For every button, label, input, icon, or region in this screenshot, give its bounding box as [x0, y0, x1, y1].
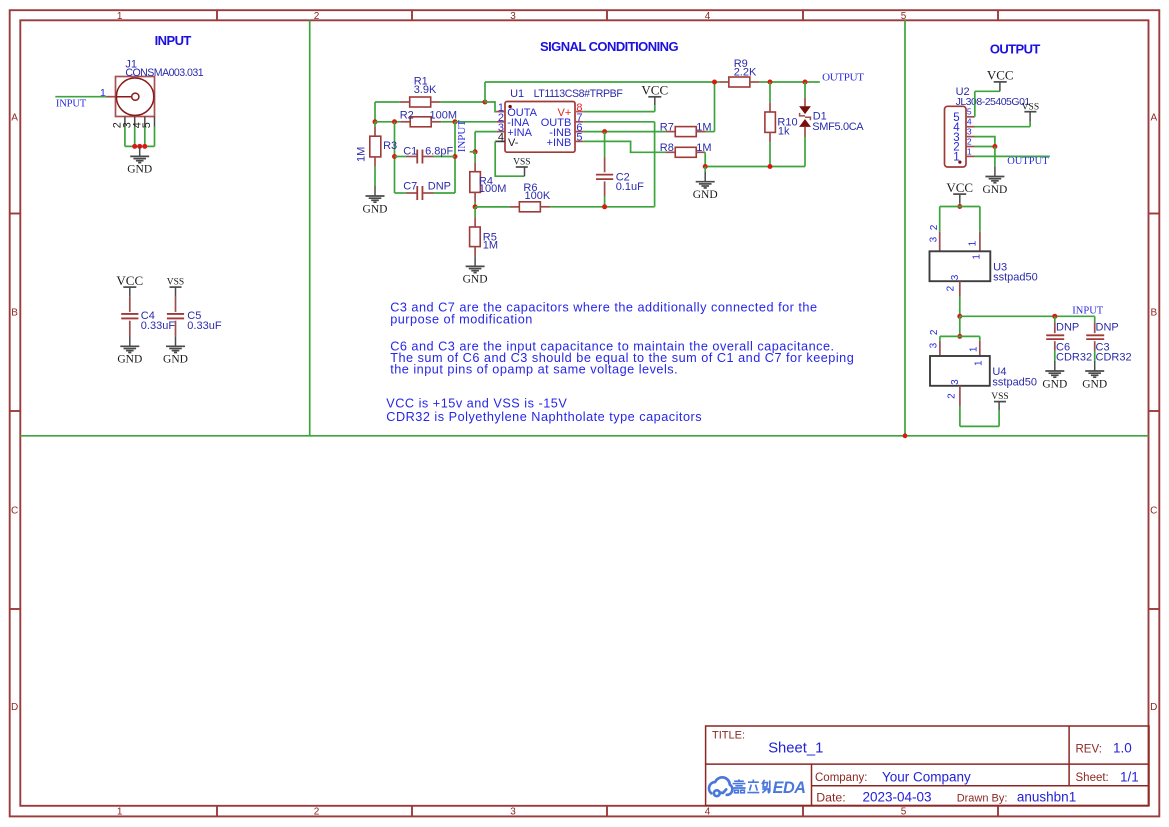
wire U1 pin 8 V+ to VCC — [583, 111, 655, 113]
wire -INA node to U1 pin 2 — [455, 121, 497, 123]
TVS diode D1 SMF5.0CA symbol — [799, 82, 811, 167]
U1 right pin leads 5-8 — [575, 112, 583, 142]
U2 pin numbers outside 5 4 3 2 1 — [967, 107, 972, 157]
svg-text:3: 3 — [950, 379, 961, 385]
svg-text:GND: GND — [982, 184, 1007, 196]
svg-text:0.33uF: 0.33uF — [187, 320, 222, 332]
svg-text:100K: 100K — [525, 190, 551, 202]
wire U2 pin 3 down to pin 2 node — [975, 137, 995, 147]
svg-text:5: 5 — [141, 122, 153, 128]
junction dot C1 top-left branch — [392, 119, 397, 124]
svg-text:4: 4 — [498, 132, 504, 144]
svg-text:U1: U1 — [510, 88, 524, 100]
svg-text:3: 3 — [928, 342, 939, 348]
note text block 1 — [390, 301, 817, 327]
section divider horizontal line — [20, 435, 1148, 437]
svg-text:sstpad50: sstpad50 — [992, 377, 1037, 389]
note text block 3 — [386, 397, 702, 425]
ground symbol GND under R5 — [463, 256, 488, 285]
svg-text:SIGNAL CONDITIONING: SIGNAL CONDITIONING — [540, 39, 679, 54]
title block frame — [706, 726, 1149, 806]
wire R3 to ground — [374, 167, 376, 186]
wire net INPUT to J1 pin 1 — [55, 96, 106, 98]
svg-text:B: B — [11, 308, 18, 319]
wire R2 row left segment — [375, 121, 400, 123]
svg-text:5: 5 — [576, 132, 582, 144]
resistor R1 symbol — [400, 97, 441, 107]
wire U2 pin 4 to VSS — [975, 122, 1031, 127]
svg-text:OUTPUT: OUTPUT — [990, 42, 1041, 57]
svg-text:3: 3 — [928, 236, 939, 242]
svg-text:R3: R3 — [383, 140, 397, 152]
wire INPUT rail down to U4 — [959, 316, 961, 336]
svg-text:EDA: EDA — [773, 779, 806, 797]
svg-text:VCC: VCC — [116, 273, 143, 288]
junction dot C2 top — [602, 129, 607, 134]
svg-text:3.9K: 3.9K — [414, 84, 437, 96]
wire U2 pin 2 — [975, 146, 995, 148]
junction dot INPUT rail left — [957, 314, 962, 319]
svg-text:A: A — [11, 112, 18, 123]
svg-text:1: 1 — [971, 254, 982, 260]
J1 pin numbers 2 3 4 5 rotated — [112, 122, 154, 128]
svg-text:REV:: REV: — [1076, 743, 1102, 755]
junction dot R4 bottom rail — [473, 204, 478, 209]
svg-text:0.33uF: 0.33uF — [141, 320, 176, 332]
svg-text:2: 2 — [314, 11, 320, 22]
svg-text:1M: 1M — [483, 240, 498, 252]
svg-text:VCC is +15v and VSS is -15V: VCC is +15v and VSS is -15V — [386, 397, 567, 411]
resistor R3 symbol — [370, 122, 381, 167]
wire R1 right to feedback node — [441, 101, 485, 103]
svg-text:1: 1 — [969, 346, 980, 352]
junction dot GND drop on output rail — [703, 164, 708, 169]
svg-text:GND: GND — [693, 189, 718, 201]
svg-text:1: 1 — [968, 240, 979, 246]
junction dot C6 branch — [1052, 314, 1057, 319]
svg-text:2: 2 — [929, 224, 940, 230]
connector U2 JL308-25405G01 body — [945, 106, 967, 167]
wire feedback vertical up — [484, 82, 486, 102]
U1 pin names OUTA -INA +INA V- — [507, 107, 537, 149]
wire C1/C7 right vertical — [454, 122, 456, 193]
wire U4 bottom to VSS — [960, 406, 999, 426]
wire U2 pin 1 to net OUTPUT — [975, 155, 1050, 157]
svg-text:VSS: VSS — [513, 158, 530, 168]
ground symbol GND under C3 — [1082, 361, 1107, 390]
resistor R10 symbol — [765, 82, 776, 167]
svg-text:INPUT: INPUT — [456, 120, 468, 153]
svg-text:1.0: 1.0 — [1113, 741, 1132, 756]
svg-text:GND: GND — [127, 164, 152, 176]
ground symbol GND under J1 — [127, 146, 152, 175]
wire U1 pin 6 -INB to R7 — [583, 131, 665, 133]
svg-text:C: C — [11, 505, 18, 516]
junction dot R4 top node / net INPUT stub — [470, 149, 478, 154]
svg-text:LT1113CS8#TRPBF: LT1113CS8#TRPBF — [534, 88, 624, 100]
svg-text:GND: GND — [1042, 378, 1067, 390]
svg-text:3: 3 — [510, 11, 516, 22]
junction dots J1 ground bus — [132, 144, 147, 149]
svg-text:INPUT: INPUT — [1072, 305, 1104, 316]
svg-text:1M: 1M — [356, 147, 368, 162]
svg-text:CDR32: CDR32 — [1096, 351, 1132, 363]
ground symbol GND under C5 — [163, 337, 188, 366]
svg-text:D: D — [11, 702, 18, 713]
svg-text:B: B — [1150, 308, 1157, 319]
resistor R9 symbol — [719, 77, 759, 87]
svg-text:CONSMA003.031: CONSMA003.031 — [125, 67, 203, 79]
svg-text:VCC: VCC — [641, 83, 668, 98]
wire feedback top line to OUTPUT — [485, 81, 820, 83]
svg-text:Company:: Company: — [815, 772, 867, 784]
capacitor C7 symbol — [395, 186, 456, 200]
junction dot C1 left — [392, 154, 397, 159]
U1 polarity dot near pin 1 — [508, 105, 511, 108]
svg-text:1/1: 1/1 — [1120, 770, 1139, 785]
junction on divider lines — [903, 433, 908, 438]
svg-text:5: 5 — [901, 806, 907, 817]
wire J1 ground bus — [125, 127, 155, 146]
svg-text:DNP: DNP — [428, 180, 451, 192]
J1 pin 1 lead — [106, 96, 116, 98]
junction dot C1 right — [453, 154, 458, 159]
capacitor C5 symbol — [167, 296, 184, 337]
svg-text:GND: GND — [363, 203, 388, 215]
U4 pin numbers rotated — [928, 329, 984, 399]
wire U1 pin 7 OUTB down to bottom rail — [583, 122, 654, 207]
svg-text:1: 1 — [117, 11, 123, 22]
JLCEDA logo text JiaLiChuang glyphs — [732, 779, 769, 792]
svg-text:100M: 100M — [479, 183, 507, 195]
U1 left pin leads 1-4 — [495, 112, 505, 142]
svg-text:+INB: +INB — [547, 137, 572, 149]
svg-text:V-: V- — [508, 137, 519, 149]
svg-text:A: A — [1150, 112, 1157, 123]
svg-text:OUTPUT: OUTPUT — [822, 71, 864, 83]
svg-text:6.8pF: 6.8pF — [425, 145, 453, 157]
svg-text:VSS: VSS — [167, 278, 184, 288]
svg-text:Sheet:: Sheet: — [1076, 772, 1109, 784]
svg-text:4: 4 — [705, 11, 711, 22]
svg-text:2: 2 — [314, 806, 320, 817]
svg-text:5: 5 — [901, 11, 907, 22]
capacitor C1 symbol — [395, 150, 456, 164]
svg-text:Your Company: Your Company — [882, 770, 971, 785]
note text block 2 — [390, 340, 854, 377]
U1 pin numbers right 8 7 6 5 — [576, 102, 582, 144]
power symbol VCC above U2 — [987, 68, 1014, 92]
resistor R4 symbol — [470, 152, 481, 207]
junction dot R3 top node — [373, 119, 378, 124]
power symbol VSS above right of U2 — [1022, 102, 1039, 121]
svg-text:VSS: VSS — [991, 392, 1008, 402]
svg-text:anushbn1: anushbn1 — [1017, 790, 1076, 805]
J1 pins 2-5 leads — [125, 117, 155, 127]
svg-text:CDR32: CDR32 — [1056, 351, 1092, 363]
wire net INPUT rail — [960, 315, 1095, 317]
junction dot D1 top — [803, 80, 808, 85]
junction dot U4 top node — [957, 334, 962, 339]
resistor R2 symbol — [400, 117, 441, 127]
capacitor C2 symbol — [596, 132, 613, 207]
svg-text:3: 3 — [967, 127, 972, 137]
capacitor C4 symbol — [121, 296, 138, 337]
wire U2 pin 5 to VCC — [975, 91, 1000, 117]
wire net from J1/INPUT into R2 node (left vertical) — [375, 102, 400, 122]
ground symbol GND under output rail — [693, 167, 718, 202]
junction dot VCC U3 node — [957, 204, 962, 209]
wire R7 right up to feedback line — [706, 82, 715, 132]
svg-text:2: 2 — [967, 136, 972, 146]
U3 pin numbers rotated — [928, 224, 982, 291]
junction dot at R1 right feedback node — [483, 100, 488, 105]
svg-text:4: 4 — [705, 806, 711, 817]
connector J1 CONSMA003.031 SMA symbol — [116, 77, 155, 117]
section divider vertical line 2 — [904, 20, 906, 436]
svg-text:R2: R2 — [400, 109, 414, 121]
wire U2 pin2 node down to ground — [994, 147, 996, 167]
svg-text:3: 3 — [510, 806, 516, 817]
svg-text:purpose of modification: purpose of modification — [390, 312, 533, 326]
wire R8 right down to output bottom rail — [705, 152, 805, 166]
power symbol VSS below U4 — [991, 392, 1008, 410]
svg-text:GND: GND — [117, 354, 142, 366]
svg-text:2: 2 — [946, 285, 957, 291]
op-amp U1 LT1113CS8#TRPBF body — [505, 102, 575, 153]
svg-text:1: 1 — [953, 152, 959, 164]
svg-text:2: 2 — [929, 329, 940, 335]
power symbol VCC above U3 — [946, 180, 973, 207]
capacitor C3 symbol — [1086, 316, 1104, 361]
svg-text:1k: 1k — [778, 126, 790, 138]
svg-text:CDR32 is Polyethylene Naphthol: CDR32 is Polyethylene Naphtholate type c… — [386, 410, 702, 424]
svg-text:INPUT: INPUT — [155, 33, 192, 48]
svg-text:the input pins of opamp at sam: the input pins of opamp at same voltage … — [390, 363, 678, 377]
svg-text:Drawn By:: Drawn By: — [957, 792, 1008, 804]
U1 pin numbers left 1 2 3 4 — [498, 102, 504, 144]
svg-text:1: 1 — [117, 806, 123, 817]
ground symbol GND under C4 — [117, 337, 142, 366]
svg-text:VCC: VCC — [946, 180, 973, 195]
resistor R8 symbol — [666, 147, 706, 157]
svg-text:100M: 100M — [430, 109, 458, 121]
svg-text:5: 5 — [967, 107, 972, 117]
junction dot U2 pin2/pin3 node — [992, 144, 997, 149]
ground symbol GND under C6 — [1042, 361, 1067, 390]
U2 pin leads 1-5 — [966, 117, 975, 157]
wire U3 bottom to INPUT rail — [959, 297, 961, 317]
svg-text:0.1uF: 0.1uF — [616, 181, 644, 193]
svg-text:C: C — [1150, 505, 1157, 516]
svg-text:2.2K: 2.2K — [734, 67, 757, 79]
power symbol VSS above C5 — [167, 278, 184, 297]
wire R6 right to C2 bottom rail — [550, 206, 605, 208]
junction dot C2 bottom rail — [602, 204, 607, 209]
svg-text:DNP: DNP — [1056, 321, 1079, 333]
resistor R6 symbol — [475, 202, 550, 212]
svg-text:GND: GND — [463, 274, 488, 286]
svg-text:SMF5.0CA: SMF5.0CA — [812, 121, 864, 133]
svg-text:R8: R8 — [660, 142, 674, 154]
wire feedback node down-right to U1 pin 1 — [485, 102, 497, 112]
svg-text:GND: GND — [163, 354, 188, 366]
svg-text:3: 3 — [950, 274, 961, 280]
svg-text:D: D — [1150, 702, 1157, 713]
wire R2 right to -INA node — [441, 121, 455, 123]
wire U1 pin 4 V- to VSS — [495, 141, 524, 176]
pad U3 sstpad50 body — [930, 232, 991, 297]
ground symbol GND under U2 — [982, 167, 1007, 196]
U2 pin numbers inside 5 4 3 2 1 — [953, 112, 960, 164]
svg-text:DNP: DNP — [1096, 321, 1119, 333]
junction dot R10 bottom rail — [768, 164, 773, 169]
capacitor C6 symbol — [1046, 316, 1064, 361]
junction dot R10 top — [768, 80, 773, 85]
svg-text:INPUT: INPUT — [56, 98, 87, 109]
svg-text:Sheet_1: Sheet_1 — [768, 741, 823, 757]
junction dot C1 top-right branch — [453, 119, 458, 124]
resistor R7 symbol — [666, 127, 706, 137]
svg-text:1: 1 — [967, 146, 972, 156]
power symbol VCC at U1 — [641, 83, 668, 112]
svg-text:1: 1 — [974, 360, 985, 366]
svg-text:sstpad50: sstpad50 — [993, 271, 1038, 283]
svg-text:OUTPUT: OUTPUT — [1007, 156, 1049, 167]
junction dot feedback R7 branch — [712, 80, 717, 85]
svg-text:VCC: VCC — [987, 68, 1014, 83]
resistor R5 symbol — [470, 207, 481, 257]
svg-text:VSS: VSS — [1022, 102, 1039, 112]
svg-text:GND: GND — [1082, 378, 1107, 390]
power symbol VCC above C4 — [116, 273, 143, 297]
ground symbol GND under R3 — [363, 186, 388, 215]
power symbol VSS at U1 — [513, 158, 530, 177]
JLCEDA logo cloud — [709, 777, 732, 796]
svg-text:2023-04-03: 2023-04-03 — [863, 790, 932, 805]
svg-text:R7: R7 — [660, 122, 674, 134]
wire U4 top rail — [940, 336, 980, 340]
section divider vertical line 1 — [309, 20, 311, 436]
svg-text:C1: C1 — [403, 145, 417, 157]
U2 polarity dot near pin 1 — [958, 161, 961, 164]
wire U1 pin 5 +INB to R8 — [583, 141, 665, 152]
wire U3 top rail — [940, 207, 980, 232]
svg-text:4: 4 — [967, 117, 972, 127]
U1 pin names V+ OUTB -INB +INB — [541, 107, 572, 149]
pad U4 sstpad50 body — [930, 341, 990, 407]
svg-text:1M: 1M — [696, 142, 711, 154]
svg-text:Date:: Date: — [816, 790, 845, 804]
svg-text:TITLE:: TITLE: — [712, 730, 745, 742]
wire U1 pin 3 +INA to R4 node — [475, 132, 497, 152]
svg-text:C7: C7 — [403, 180, 417, 192]
wire C1/C7 left vertical — [394, 122, 396, 193]
svg-text:2: 2 — [947, 393, 958, 399]
